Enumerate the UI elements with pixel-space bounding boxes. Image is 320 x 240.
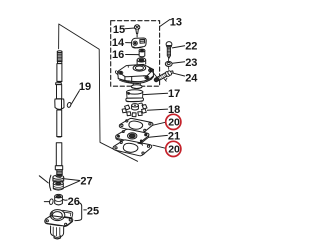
label 24: [173, 73, 198, 85]
collar 16: [139, 49, 145, 57]
grease stud 24: [154, 70, 173, 82]
svg-text:24: 24: [185, 73, 198, 85]
svg-text:20: 20: [168, 144, 180, 156]
bracket and leader for 27: [39, 175, 51, 190]
svg-text:23: 23: [185, 57, 197, 69]
clip 19: [67, 102, 72, 108]
label 14: [112, 37, 131, 49]
label 19: [71, 81, 91, 104]
collar 26: [55, 194, 63, 205]
label 18: [147, 104, 180, 116]
svg-text:26: 26: [68, 196, 80, 208]
red circle 20 upper: [153, 114, 181, 129]
svg-text:27: 27: [80, 176, 92, 188]
boundary polyline linking subassembly to shaft: [59, 24, 138, 161]
leader from housing to stud 24: [148, 67, 157, 78]
dashed detail box 13: [111, 21, 160, 87]
dowel pin: [44, 199, 53, 205]
driveshaft upper section: [57, 64, 62, 82]
driveshaft threaded tip: [57, 51, 62, 64]
svg-text:22: 22: [185, 41, 197, 53]
wear plate 21: [116, 129, 149, 144]
shaft collar: [55, 99, 64, 109]
oil seal housing 14: [131, 38, 146, 48]
label 23: [173, 57, 198, 69]
svg-text:19: 19: [79, 81, 91, 93]
label 27: [64, 176, 92, 188]
pump housing bottom outlet: [131, 83, 142, 89]
pump housing top port: [137, 58, 146, 65]
label 25 with bracket: [75, 203, 99, 221]
red circle 20 lower: [153, 141, 181, 156]
alignment axis ticks: [168, 59, 170, 70]
svg-text:20: 20: [168, 117, 180, 129]
label 17: [143, 88, 180, 100]
driveshaft lower section: [57, 110, 62, 137]
gasket 20 lower: [113, 140, 152, 156]
label 15: [113, 24, 134, 36]
bolt 22: [166, 42, 172, 59]
svg-text:13: 13: [170, 17, 182, 29]
label 26: [63, 196, 80, 208]
upper casing 25: [45, 210, 73, 239]
impeller 18: [122, 103, 147, 117]
driveshaft bottom section: [55, 143, 62, 176]
label 13: [160, 17, 182, 29]
impeller cup 17: [126, 90, 144, 102]
bushing 27 lower: [53, 181, 63, 190]
washer band on shaft: [56, 83, 62, 85]
pump housing body: [115, 64, 153, 83]
label 16: [112, 49, 139, 61]
label 22: [172, 41, 197, 53]
screw 15: [134, 25, 139, 37]
svg-text:14: 14: [112, 37, 125, 49]
gasket 20 upper: [119, 118, 153, 132]
svg-text:16: 16: [112, 49, 124, 61]
svg-text:15: 15: [113, 24, 125, 36]
bushing 27 upper: [53, 175, 64, 182]
svg-text:25: 25: [87, 205, 99, 217]
label 21: [149, 131, 180, 143]
svg-text:17: 17: [168, 88, 180, 100]
driveshaft mid section: [57, 85, 62, 99]
washer 23: [165, 61, 172, 66]
